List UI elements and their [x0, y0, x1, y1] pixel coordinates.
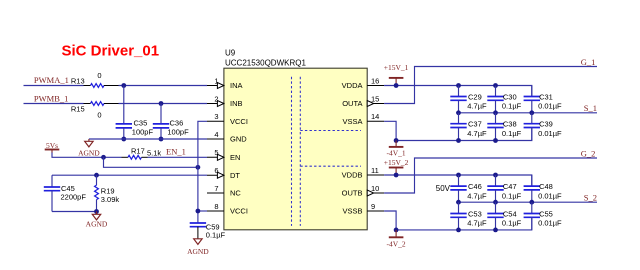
pin 1 INA [207, 76, 243, 90]
capacitor C36 [153, 104, 189, 140]
node INB / C36 junction [159, 101, 164, 106]
svg-text:VDDA: VDDA [342, 81, 363, 90]
svg-text:0.1µF: 0.1µF [206, 231, 226, 240]
svg-text:S_2: S_2 [584, 192, 597, 202]
wire pin 3 VCCI down to C59 [198, 121, 207, 223]
svg-text:G_1: G_1 [581, 57, 596, 67]
pin 2 INB [207, 94, 243, 108]
isolation barrier dashed lines [292, 77, 362, 226]
node C37 bottom [456, 138, 461, 143]
node C30-C38 [493, 110, 498, 115]
svg-text:5: 5 [214, 148, 218, 157]
svg-text:SiC Driver_01: SiC Driver_01 [62, 42, 160, 59]
svg-text:AGND: AGND [86, 220, 108, 229]
svg-text:VDDB: VDDB [342, 171, 363, 180]
svg-text:C29: C29 [468, 93, 482, 102]
node +15V_1 junction [394, 83, 399, 88]
svg-text:NC: NC [230, 189, 241, 198]
wire R13 to pin 1 INA [119, 85, 208, 87]
capacitor C31 [524, 86, 562, 113]
capacitor C47 [487, 175, 521, 202]
svg-text:GND: GND [230, 135, 247, 144]
node -4V_2 junction [394, 228, 399, 233]
svg-text:1: 1 [214, 76, 218, 85]
wire C45 R19 bottom [52, 211, 97, 213]
power -4V_2 [387, 230, 406, 248]
svg-text:UCC21530QDWKRQ1: UCC21530QDWKRQ1 [225, 59, 306, 68]
resistor R13 [71, 71, 119, 87]
wire GND rail to pin 4 [89, 138, 207, 140]
net label S_1 [584, 103, 597, 113]
capacitor C37 [450, 113, 487, 141]
svg-text:2200pF: 2200pF [61, 193, 87, 202]
svg-text:0.01µF: 0.01µF [538, 219, 562, 228]
svg-text:C31: C31 [539, 93, 553, 102]
svg-text:C39: C39 [539, 120, 553, 129]
capacitor C35 [116, 86, 154, 140]
svg-text:INB: INB [230, 99, 243, 108]
svg-text:G_2: G_2 [581, 148, 596, 158]
svg-text:C30: C30 [503, 93, 517, 102]
ground AGND at R19 [86, 212, 108, 229]
svg-text:C36: C36 [170, 118, 184, 127]
svg-text:0.1µF: 0.1µF [502, 102, 522, 111]
node INA / C35 junction [121, 83, 126, 88]
capacitor C38 [487, 113, 521, 141]
node C48-C55 [529, 200, 534, 205]
node C53 bottom [456, 228, 461, 233]
node C29-C37 [456, 110, 461, 115]
wire OUTB to G_2 net [384, 158, 597, 193]
svg-text:PWMB_1: PWMB_1 [34, 93, 68, 103]
node pin 8 VCCI junction [196, 209, 201, 214]
power -4V_1 [387, 141, 406, 158]
svg-text:C35: C35 [134, 118, 148, 127]
node -4V_1 junction [394, 138, 399, 143]
svg-text:VCCI: VCCI [230, 117, 248, 126]
svg-text:-4V_2: -4V_2 [387, 239, 406, 248]
svg-text:5Vs: 5Vs [46, 141, 58, 150]
capacitor C59 [190, 222, 226, 239]
svg-text:100pF: 100pF [132, 127, 154, 136]
svg-text:PWMA_1: PWMA_1 [34, 75, 69, 85]
ground AGND at GND rail [78, 139, 100, 158]
resistor R15 [71, 102, 119, 120]
svg-text:C38: C38 [503, 120, 517, 129]
node C31-C39 [529, 110, 534, 115]
capacitor C45 [44, 175, 87, 211]
wire S_2 rail [456, 201, 597, 203]
svg-text:0.01µF: 0.01µF [538, 102, 562, 111]
net label PWMB_1 [34, 93, 68, 103]
capacitor C48 [524, 175, 562, 202]
svg-text:11: 11 [371, 166, 379, 175]
svg-text:3: 3 [214, 112, 218, 121]
svg-text:U9: U9 [225, 49, 236, 58]
svg-text:VCCI: VCCI [230, 207, 248, 216]
node C38 bottom [493, 138, 498, 143]
svg-text:R15: R15 [71, 105, 85, 114]
resistor R17 [122, 146, 162, 159]
svg-text:DT: DT [230, 171, 240, 180]
svg-text:EN_1: EN_1 [166, 147, 186, 157]
node +15V_2 junction [394, 173, 399, 178]
wire R17 to pin 5 EN [148, 156, 208, 158]
svg-text:+15V_2: +15V_2 [384, 158, 409, 167]
wire EN junction to VCCI column [104, 157, 198, 167]
pin 14 VSSA [342, 112, 384, 126]
capacitor C53 [450, 202, 487, 230]
power +15V_2 [384, 158, 409, 175]
wire VDDA rail pin 16 [384, 86, 532, 97]
node C35 to GND rail [121, 137, 126, 142]
svg-text:3.09k: 3.09k [101, 195, 120, 204]
power 5Vs [45, 141, 60, 153]
pin 9 VSSB [342, 202, 384, 216]
wire PWMA_1 [24, 85, 84, 87]
svg-text:C48: C48 [539, 182, 553, 191]
svg-text:R13: R13 [71, 77, 85, 86]
svg-text:C54: C54 [503, 210, 517, 219]
value label 50V [436, 184, 451, 193]
svg-text:15: 15 [371, 94, 379, 103]
wire 5Vs to EN junction [52, 153, 122, 158]
svg-text:0.1µF: 0.1µF [502, 219, 522, 228]
resistor R19 [95, 175, 120, 211]
svg-text:4.7µF: 4.7µF [467, 219, 487, 228]
pin 5 EN [207, 148, 240, 162]
wire DT net [52, 174, 207, 176]
pin 4 GND [207, 130, 247, 144]
capacitor C29 [450, 86, 487, 113]
node C46-C53 [456, 200, 461, 205]
svg-text:8: 8 [214, 202, 218, 211]
pin 3 VCCI [207, 112, 248, 126]
svg-text:7: 7 [214, 184, 218, 193]
svg-text:-4V_1: -4V_1 [387, 149, 406, 158]
svg-text:EN: EN [230, 153, 240, 162]
svg-text:OUTB: OUTB [342, 189, 363, 198]
net label S_2 [584, 192, 597, 202]
node C29 top [456, 83, 461, 88]
svg-text:0: 0 [97, 111, 101, 120]
svg-text:16: 16 [371, 76, 379, 85]
wire PWMB_1 [24, 103, 84, 105]
capacitor C39 [524, 113, 562, 141]
capacitor C30 [487, 86, 521, 113]
svg-text:OUTA: OUTA [342, 99, 362, 108]
pin 7 NC [207, 184, 241, 198]
node R19 bottom junction [94, 209, 99, 214]
wire S_1 rail [456, 112, 597, 114]
node C54 bottom [493, 228, 498, 233]
svg-text:10: 10 [371, 184, 379, 193]
IC U9 UCC21530QDWKRQ1 body [224, 49, 367, 230]
pin 11 VDDB [342, 166, 384, 180]
net label PWMA_1 [34, 75, 69, 85]
svg-text:100pF: 100pF [167, 127, 189, 136]
capacitor C55 [524, 202, 562, 230]
svg-text:50V: 50V [436, 184, 451, 193]
svg-text:0.1µF: 0.1µF [502, 129, 522, 138]
node C30 top [493, 83, 498, 88]
svg-text:VSSB: VSSB [342, 207, 362, 216]
node C47-C54 [493, 200, 498, 205]
net label G_1 [581, 57, 596, 67]
svg-text:5.1k: 5.1k [147, 149, 161, 158]
node R19 top junction [94, 173, 99, 178]
svg-text:0.01µF: 0.01µF [538, 191, 562, 200]
wire VSSA pin 14 to -4V_1 rail [384, 121, 532, 140]
pin 10 OUTB [342, 184, 384, 198]
pin 8 VCCI [207, 202, 248, 216]
svg-text:2: 2 [214, 94, 218, 103]
node C47 top [493, 173, 498, 178]
svg-text:C45: C45 [61, 184, 75, 193]
pin 6 DT [207, 166, 240, 180]
svg-text:VSSA: VSSA [342, 117, 362, 126]
svg-text:9: 9 [371, 202, 375, 211]
wire VDDB rail pin 11 [384, 175, 532, 186]
svg-text:R17: R17 [131, 146, 145, 155]
title SiC Driver_01 [62, 42, 160, 59]
svg-text:C47: C47 [503, 182, 517, 191]
capacitor C54 [487, 202, 521, 230]
wire OUTA to G_1 net [384, 67, 597, 104]
svg-text:4.7µF: 4.7µF [467, 129, 487, 138]
svg-text:C55: C55 [539, 210, 553, 219]
svg-text:0.1µF: 0.1µF [502, 191, 522, 200]
node EN junction [101, 155, 106, 160]
svg-text:AGND: AGND [78, 149, 100, 158]
svg-text:C37: C37 [468, 120, 482, 129]
node C36 to GND rail [159, 137, 164, 142]
svg-text:C46: C46 [468, 182, 482, 191]
svg-text:0: 0 [97, 71, 101, 80]
pin 16 VDDA [342, 76, 384, 90]
pin 15 OUTA [342, 94, 384, 108]
svg-text:4.7µF: 4.7µF [467, 191, 487, 200]
wire pin 8 VCCI [198, 210, 207, 212]
net label EN_1 [166, 147, 186, 157]
svg-text:4.7µF: 4.7µF [467, 102, 487, 111]
ground AGND below C59 [187, 227, 209, 256]
svg-text:6: 6 [214, 166, 218, 175]
svg-text:INA: INA [230, 81, 243, 90]
wire R15 to pin 2 INB [119, 103, 208, 105]
svg-text:14: 14 [371, 112, 379, 121]
svg-text:AGND: AGND [187, 247, 209, 256]
svg-text:C53: C53 [468, 210, 482, 219]
net label G_2 [581, 148, 596, 158]
svg-text:0.01µF: 0.01µF [538, 129, 562, 138]
svg-text:S_1: S_1 [584, 103, 597, 113]
wire VSSB pin 9 to -4V_2 rail [384, 211, 532, 230]
svg-text:4: 4 [214, 130, 218, 139]
svg-text:+15V_1: +15V_1 [384, 63, 409, 72]
capacitor C46 [450, 175, 487, 202]
node C46 top [456, 173, 461, 178]
power +15V_1 [384, 63, 409, 86]
node VCCI column junction [196, 165, 201, 170]
